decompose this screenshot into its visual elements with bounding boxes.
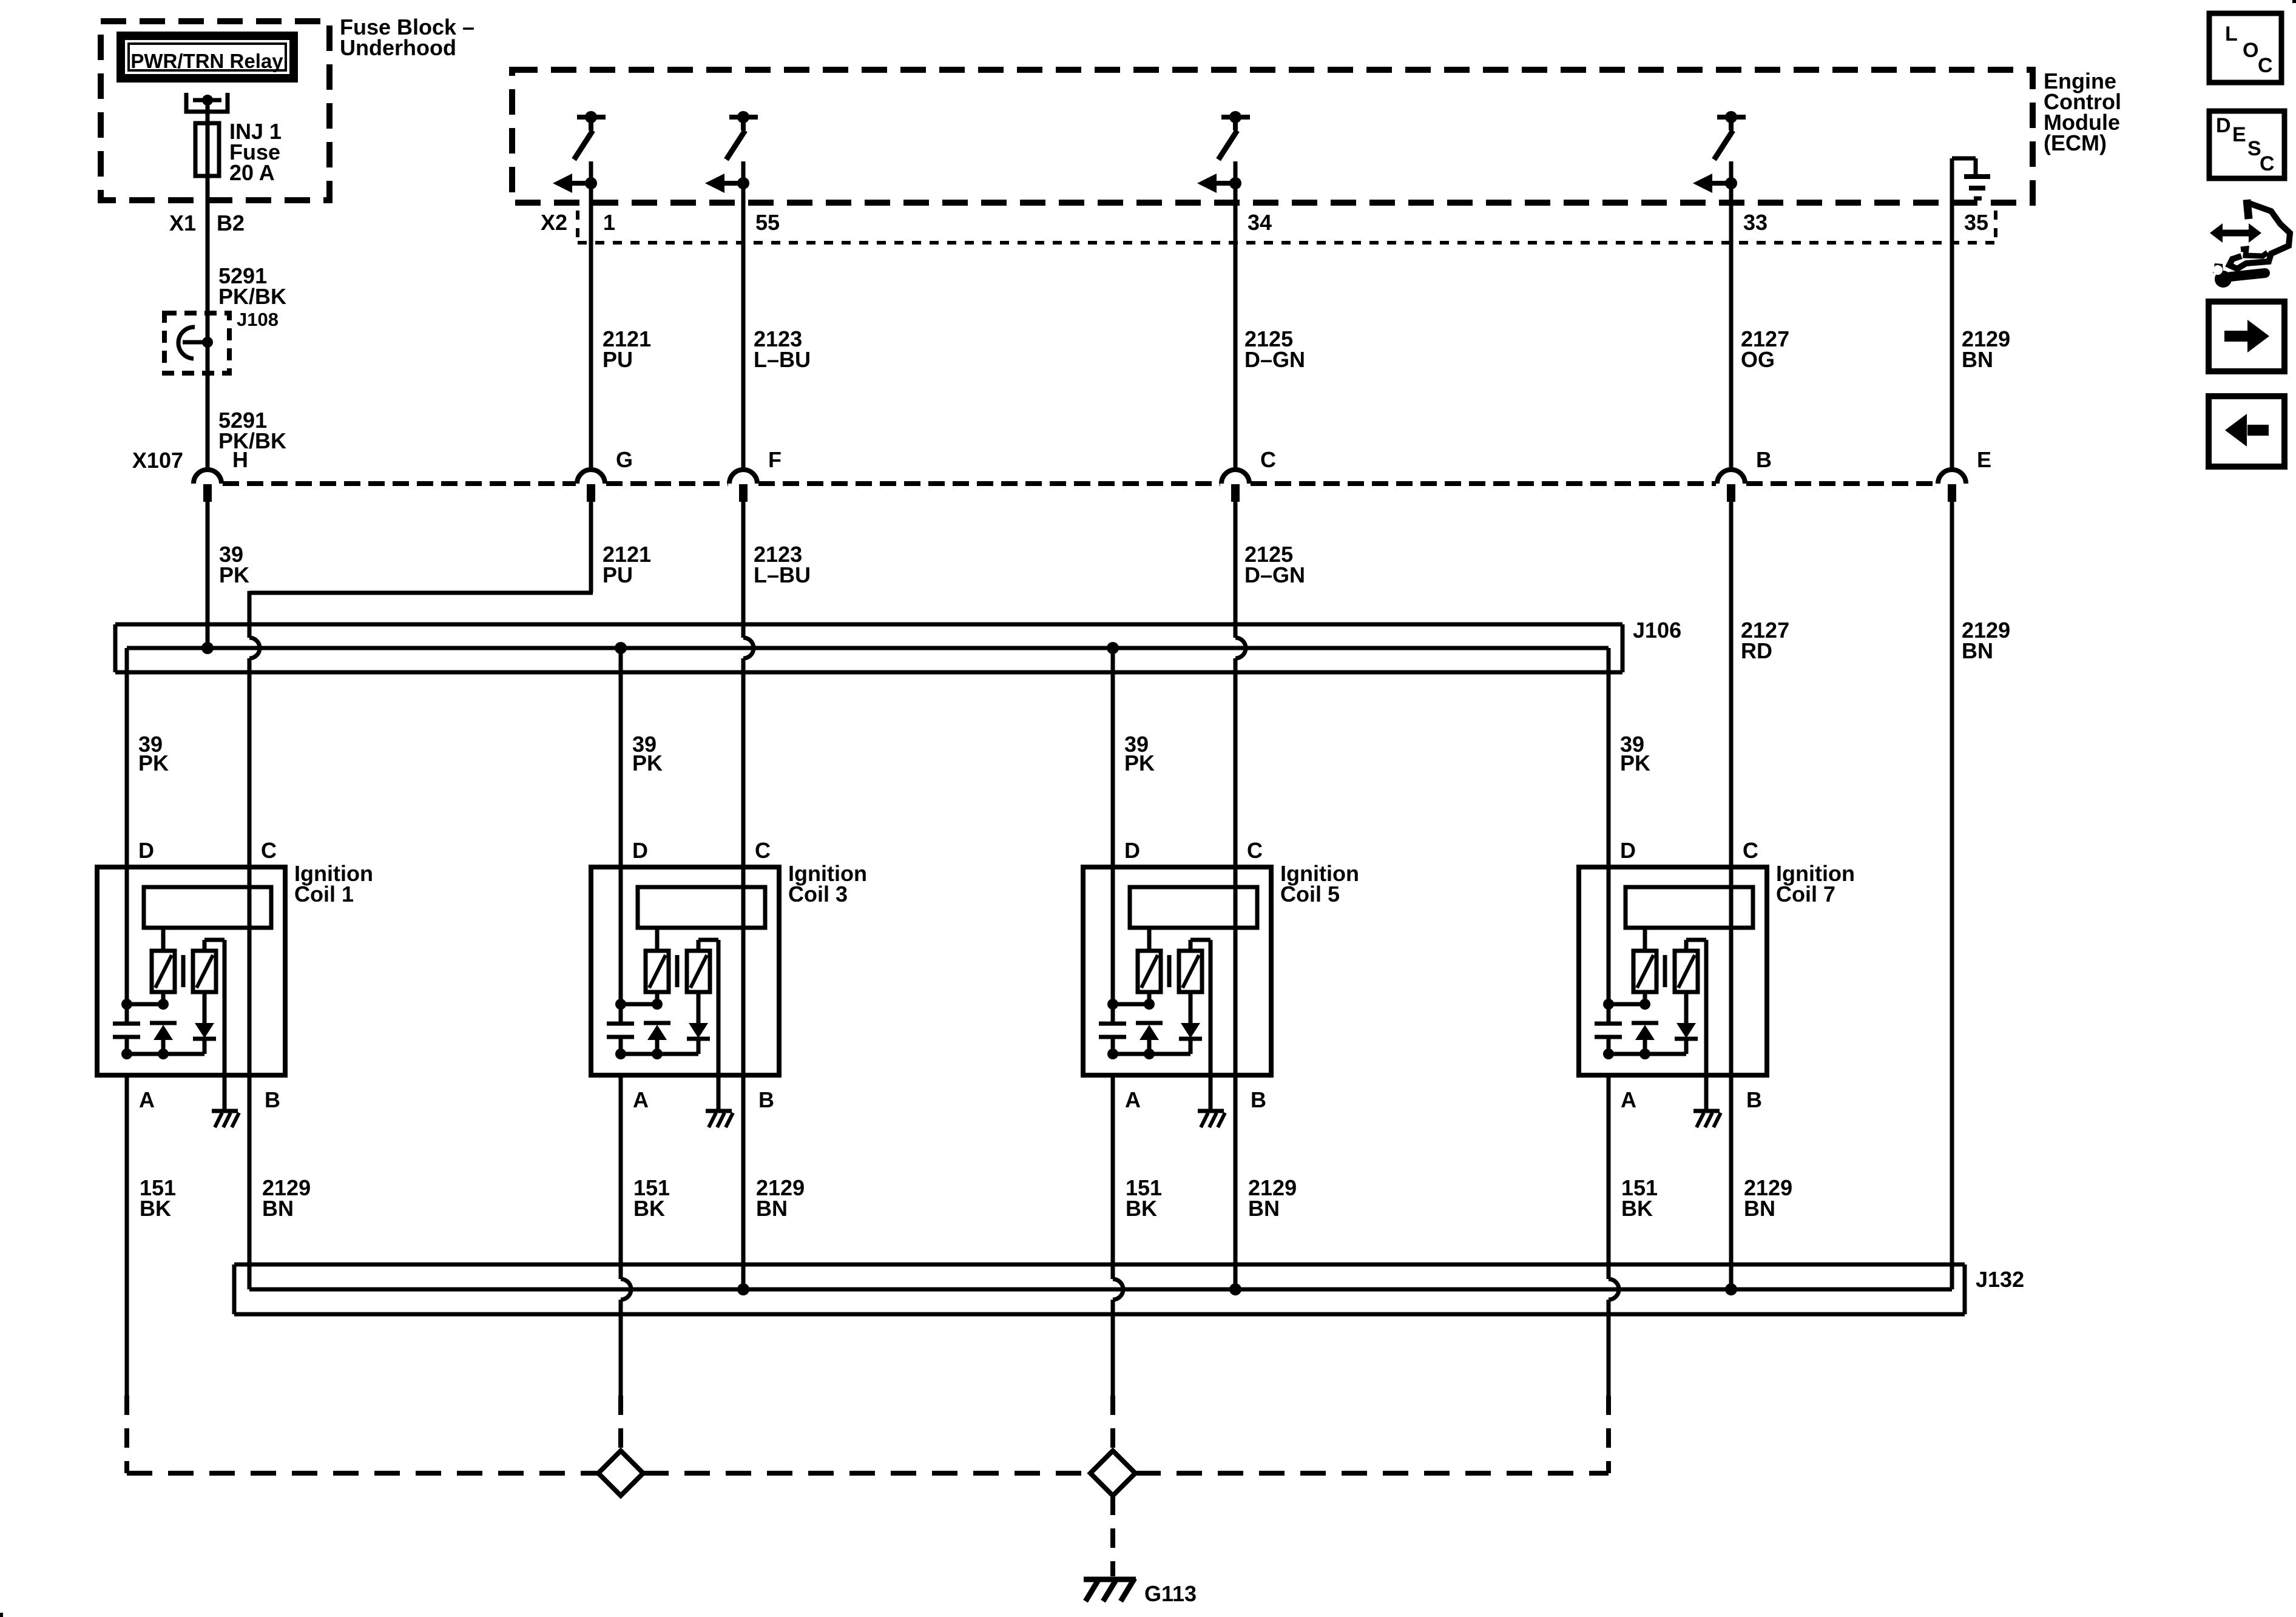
wire 2129 BN coil3 B to J132: [741, 1075, 746, 1289]
svg-text:D–GN: D–GN: [1244, 562, 1305, 587]
wire label 39 PK: [219, 542, 249, 587]
svg-text:A: A: [1125, 1087, 1141, 1112]
coil 3 secondary winding: [687, 951, 710, 992]
wire label 39 PK (coil 1): [138, 732, 169, 775]
coil 7 secondary output to spark gap ground: [1686, 940, 1706, 1111]
svg-text:X107: X107: [132, 448, 183, 473]
svg-text:C: C: [1743, 838, 1758, 863]
wire 151 BK coil7 A through J132 (hop): [1609, 1075, 1619, 1396]
wire label 2129 BN: [1962, 326, 2010, 372]
svg-text:J108: J108: [237, 309, 279, 330]
svg-text:L: L: [2225, 22, 2238, 46]
icon DESC: [2209, 111, 2284, 178]
junction bus J132: [234, 1264, 2024, 1314]
svg-text:D: D: [1124, 838, 1140, 863]
ECM output arrow pin 34: [1197, 174, 1241, 193]
svg-text:BN: BN: [1962, 638, 1993, 663]
svg-text:BN: BN: [1962, 347, 1993, 372]
coil 1 diode down: [193, 992, 216, 1054]
coil 5 internal wiring: [1107, 999, 1190, 1059]
coil 3 primary winding: [646, 928, 669, 1004]
splice S1 (diamond): [598, 1451, 643, 1496]
ECM driver switch for pin 55: [726, 111, 758, 160]
wire label 39 PK (coil 7): [1620, 732, 1650, 775]
ECM output arrow pin 55: [705, 174, 749, 193]
coil 5 capacitor: [1099, 1004, 1126, 1054]
svg-text:C: C: [755, 838, 771, 863]
svg-text:BN: BN: [262, 1196, 294, 1221]
svg-text:O: O: [2243, 39, 2258, 62]
splice connector J108: [164, 309, 279, 373]
svg-text:PK/BK: PK/BK: [218, 284, 286, 309]
ignition coil 3: [591, 838, 867, 1127]
wire label 2129 BN (coil 5): [1248, 1175, 1297, 1221]
svg-text:X1: X1: [169, 211, 196, 235]
junction dot J106 coil3: [615, 642, 627, 654]
svg-text:Coil 3: Coil 3: [788, 882, 848, 906]
pin labels X1 B2: [169, 211, 245, 235]
svg-text:PK: PK: [219, 562, 249, 587]
junction dot J106 at H: [201, 642, 214, 654]
svg-text:L–BU: L–BU: [754, 562, 811, 587]
svg-text:G113: G113: [1144, 1581, 1197, 1606]
coil 7 secondary winding: [1675, 951, 1698, 992]
coil 7 module block: [1626, 887, 1753, 928]
coil 7 box: [1579, 867, 1767, 1075]
coil 1 module block: [144, 887, 271, 928]
coil 5 primary winding: [1138, 928, 1161, 1004]
coil 1 capacitor: [113, 1004, 140, 1054]
wire label 39 PK (coil 3): [632, 732, 663, 775]
label Ignition Coil 5: [1280, 861, 1359, 906]
svg-text:(ECM): (ECM): [2044, 130, 2107, 155]
svg-text:BN: BN: [1744, 1196, 1775, 1221]
wire label 2129 BN (coil 7): [1744, 1175, 1792, 1221]
coil 1 core: [181, 955, 186, 987]
svg-text:B: B: [1251, 1087, 1266, 1112]
wire label 151 BK (coil 5): [1126, 1175, 1162, 1221]
svg-text:G: G: [616, 447, 633, 472]
wire 151 BK coil5 A through J132 (hop): [1113, 1075, 1123, 1396]
X107 pin C: [1221, 447, 1276, 502]
wire 2129 BN coil5 B to J132: [1234, 1075, 1238, 1289]
svg-text:Coil 5: Coil 5: [1280, 882, 1340, 906]
wire label 151 BK (coil 3): [633, 1175, 670, 1221]
coil 3 secondary output to spark gap ground: [698, 940, 718, 1111]
coil 5 spark plug ground: [1198, 1111, 1225, 1127]
X107 pin F: [729, 447, 782, 502]
splice S2 (diamond): [1090, 1451, 1135, 1496]
ECM driver switch for pin 33: [1714, 111, 1746, 160]
svg-text:F: F: [768, 447, 782, 472]
ignition coil 5: [1083, 838, 1359, 1127]
icon service tool part outline: [2229, 200, 2290, 269]
coil 1 primary winding: [152, 928, 175, 1004]
coil 7 core: [1663, 955, 1667, 987]
coil 7 diode up: [1632, 1023, 1658, 1054]
svg-text:33: 33: [1743, 210, 1768, 235]
junction dot J132 coil5 B: [1229, 1283, 1241, 1295]
svg-text:OG: OG: [1741, 347, 1775, 372]
svg-text:PK: PK: [1620, 751, 1650, 775]
ECM output arrow pin 1: [553, 174, 597, 193]
coil 7 internal wiring: [1603, 999, 1686, 1059]
svg-text:B: B: [1756, 447, 1772, 472]
svg-text:H: H: [232, 447, 248, 472]
wire ECM pin 35 down to X107 E: [1950, 158, 1954, 470]
fuse block - underhood (dashed box): [101, 21, 329, 200]
svg-text:PU: PU: [603, 562, 633, 587]
svg-text:35: 35: [1964, 210, 1988, 235]
svg-text:D: D: [1620, 838, 1636, 863]
svg-text:34: 34: [1248, 210, 1272, 235]
wire 2125 D-GN from X107 C to coil 5 pin C: [1235, 502, 1246, 867]
ground G113: [1084, 1578, 1197, 1606]
wire 2123 L-BU from X107 F to coil 3 pin C: [743, 502, 754, 867]
wire label 39 PK (coil 5): [1124, 732, 1155, 775]
X107 pin B: [1717, 447, 1772, 502]
wire 2127 from X107 B to coil 7 pin C: [1729, 502, 1734, 867]
coil 7 wire C to B through box: [1729, 867, 1734, 1075]
svg-text:X2: X2: [541, 210, 567, 235]
dashed wire coil7 A to splice line: [1606, 1396, 1611, 1473]
dashed splice line left segment: [127, 1471, 598, 1476]
svg-text:PK: PK: [138, 751, 169, 775]
coil 3 core: [675, 955, 680, 987]
connector X2 bracket (dotted): [541, 210, 1996, 243]
svg-text:C: C: [1247, 838, 1263, 863]
dashed wire splice S2 to ground G113: [1110, 1496, 1115, 1576]
coil 5 diode up: [1136, 1023, 1163, 1054]
wire 39 PK from X107 H to J106: [206, 502, 210, 648]
fuse INJ 1 Fuse 20 A: [195, 119, 282, 185]
svg-text:C: C: [261, 838, 277, 863]
svg-text:E: E: [2232, 123, 2246, 146]
coil 3 wire C to B through box: [741, 867, 746, 1075]
coil 1 spark plug ground: [212, 1111, 239, 1127]
icon service tool double arrow: [2210, 223, 2261, 243]
label Ignition Coil 3: [788, 861, 867, 906]
junction dot J132 coil3 B: [737, 1283, 749, 1295]
connector X107 dashed line: [132, 448, 1937, 484]
scan artifact top right corner: [2292, 0, 2296, 3]
svg-text:PWR/TRN Relay: PWR/TRN Relay: [130, 50, 283, 72]
coil 5 diode down: [1179, 992, 1202, 1054]
wire 2121 PU from X107 G jog to coil 1 pin C: [249, 502, 593, 867]
svg-text:B2: B2: [217, 211, 245, 235]
ECM driver switch for pin 34: [1218, 111, 1250, 160]
wire 151 BK coil1 A down: [125, 1075, 129, 1396]
wire 39 PK from J106 to ignition coil 3 pin D: [619, 648, 623, 1004]
label Ignition Coil 1: [294, 861, 373, 906]
coil 1 diode up: [150, 1023, 177, 1054]
junction dot J132 coil7 B: [1725, 1283, 1737, 1295]
svg-text:Underhood: Underhood: [340, 35, 456, 60]
svg-text:C: C: [2258, 54, 2273, 77]
wire ECM pin 33 down to X107: [1729, 161, 1734, 470]
icon service tool wrench: [2213, 263, 2265, 288]
ECM driver switch for pin 1: [574, 111, 606, 160]
coil 5 module block: [1130, 887, 1257, 928]
svg-text:PU: PU: [603, 347, 633, 372]
junction bus J106: [115, 618, 1681, 672]
wire label 151 BK (coil 1): [140, 1175, 176, 1221]
label Ignition Coil 7: [1776, 861, 1855, 906]
coil 3 diode down: [687, 992, 710, 1054]
coil 7 primary winding: [1633, 928, 1656, 1004]
wire label 5291 PK/BK (below J108): [218, 408, 286, 453]
coil 1 secondary winding: [193, 951, 216, 992]
dashed wire coil5 A to splice S2: [1110, 1396, 1115, 1451]
svg-text:D: D: [138, 838, 154, 863]
ignition coil 7: [1579, 838, 1855, 1127]
coil 1 wire C to B through box: [248, 867, 252, 1075]
svg-text:D–GN: D–GN: [1244, 347, 1305, 372]
wire 151 BK coil3 A through J132 (hop): [621, 1075, 631, 1396]
svg-text:BK: BK: [1126, 1196, 1157, 1221]
svg-text:55: 55: [755, 210, 780, 235]
coil 1 secondary output to spark gap ground: [204, 940, 225, 1111]
relay terminal bracket: [186, 93, 228, 112]
svg-text:B: B: [758, 1087, 774, 1112]
svg-text:Coil 1: Coil 1: [294, 882, 354, 906]
coil 5 secondary output to spark gap ground: [1190, 940, 1210, 1111]
svg-text:RD: RD: [1741, 638, 1772, 663]
svg-text:BK: BK: [1621, 1196, 1653, 1221]
coil 5 core: [1167, 955, 1172, 987]
wire 2129 BN coil1 B to J132: [248, 1075, 252, 1289]
svg-text:BN: BN: [1248, 1196, 1280, 1221]
icon LOC: [2209, 13, 2281, 83]
wire label J106 column 2129 BN: [1962, 618, 2010, 663]
wire label 2125 D–GN: [1244, 542, 1305, 587]
wire label J106 column 2127 RD: [1741, 618, 1789, 663]
wire label 5291 PK/BK: [218, 263, 286, 309]
ECM output arrow pin 33: [1693, 174, 1737, 193]
label Fuse Block - Underhood: [340, 15, 474, 60]
wire label 2125 D–GN: [1244, 326, 1305, 372]
svg-text:D: D: [632, 838, 648, 863]
svg-text:C: C: [1260, 447, 1276, 472]
svg-text:20 A: 20 A: [229, 160, 275, 185]
wire label 2129 BN (coil 1): [262, 1175, 311, 1221]
coil 3 box: [591, 867, 779, 1075]
svg-text:PK: PK: [1124, 751, 1155, 775]
svg-text:D: D: [2216, 114, 2231, 137]
coil 5 wire C to B through box: [1234, 867, 1238, 1075]
junction dot J106 coil5: [1107, 642, 1119, 654]
coil 7 diode down: [1675, 992, 1698, 1054]
X107 pin G: [577, 447, 633, 502]
wire 39 PK from J106 to ignition coil 1 pin D: [125, 648, 129, 1004]
scan artifact bottom left corner: [0, 1613, 3, 1617]
svg-text:BK: BK: [140, 1196, 171, 1221]
svg-text:B: B: [265, 1087, 280, 1112]
svg-text:L–BU: L–BU: [754, 347, 811, 372]
wire label 2121 PU: [603, 542, 651, 587]
engine control module ECM (dashed box): [512, 70, 2033, 203]
svg-text:PK: PK: [632, 751, 663, 775]
svg-text:Coil 7: Coil 7: [1776, 882, 1835, 906]
svg-text:A: A: [139, 1087, 155, 1112]
svg-text:C: C: [2260, 152, 2275, 175]
svg-text:BK: BK: [633, 1196, 665, 1221]
svg-text:J132: J132: [1976, 1267, 2024, 1292]
wire label 2127 OG: [1741, 326, 1789, 372]
wire 39 PK from J106 to ignition coil 7 pin D: [1607, 648, 1611, 1004]
wire label 2121 PU: [603, 326, 651, 372]
wire label 2123 L–BU: [754, 326, 811, 372]
svg-text:PK/BK: PK/BK: [218, 428, 286, 453]
coil 3 spark plug ground: [706, 1111, 733, 1127]
wire 39 PK from J106 to ignition coil 5 pin D: [1111, 648, 1115, 1004]
coil 3 capacitor: [607, 1004, 634, 1054]
X107 pin H: [194, 447, 248, 502]
wire ECM pin 34 down to X107: [1234, 161, 1238, 470]
wire 2129 BN coil7 B to J132: [1729, 1075, 1734, 1289]
svg-text:E: E: [1977, 447, 1991, 472]
coil 3 module block: [638, 887, 765, 928]
dashed wire coil1 A to splice line: [124, 1396, 129, 1473]
coil 5 secondary winding: [1179, 951, 1202, 992]
svg-text:1: 1: [603, 210, 615, 235]
wire label 2123 L–BU: [754, 542, 811, 587]
dashed splice line middle segment: [643, 1471, 1090, 1476]
wire ECM pin 55 down to X107: [741, 161, 746, 470]
wire 2129 BN from X107 E to J132 right end: [1950, 502, 1954, 1289]
coil 3 internal wiring: [615, 999, 698, 1059]
coil 3 diode up: [644, 1023, 670, 1054]
dashed wire coil3 A to splice S1: [618, 1396, 623, 1451]
svg-text:A: A: [633, 1087, 649, 1112]
label Engine Control Module (ECM): [2044, 69, 2121, 155]
coil 1 box: [97, 867, 285, 1075]
svg-text:A: A: [1621, 1087, 1636, 1112]
wire label 151 BK (coil 7): [1621, 1175, 1658, 1221]
wire 5291 PK/BK from relay through fuse to X107 H: [206, 100, 210, 470]
ECM internal ground at pin 35: [1952, 158, 1990, 198]
coil 7 capacitor: [1595, 1004, 1622, 1054]
X107 pin E: [1938, 447, 1991, 502]
svg-text:B: B: [1746, 1087, 1762, 1112]
coil 5 box: [1083, 867, 1271, 1075]
icon next arrow: [2209, 302, 2284, 371]
coil 7 spark plug ground: [1693, 1111, 1721, 1127]
svg-text:BN: BN: [756, 1196, 788, 1221]
icon back arrow: [2209, 396, 2284, 467]
wire label 2129 BN (coil 3): [756, 1175, 805, 1221]
relay PWR/TRN Relay: [116, 32, 298, 83]
dashed splice line right segment: [1135, 1471, 1609, 1476]
ignition coil 1: [97, 838, 373, 1127]
wire ECM pin 1 down to X107: [589, 161, 593, 470]
coil 1 internal wiring: [121, 999, 204, 1059]
svg-text:J106: J106: [1633, 618, 1681, 643]
